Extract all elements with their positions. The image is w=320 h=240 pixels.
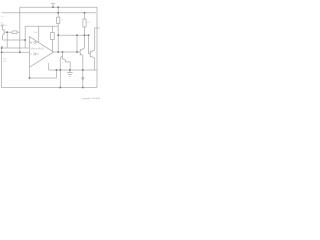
svg-text:100n: 100n [33, 32, 39, 34]
svg-text:BC559: BC559 [0, 25, 7, 27]
svg-text:Copyright © 2016 ESP: Copyright © 2016 ESP [82, 97, 101, 100]
svg-text:Vout = Vin.G: Vout = Vin.G [31, 48, 44, 51]
